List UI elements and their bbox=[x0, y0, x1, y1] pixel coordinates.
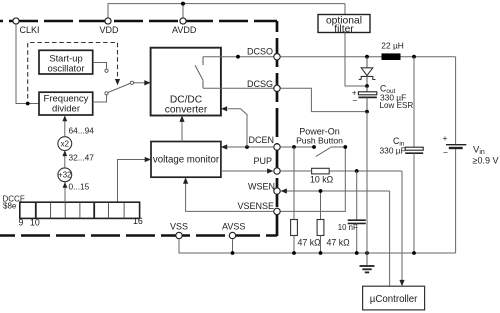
node DCEN branch bbox=[245, 145, 249, 149]
wire Cout bottom to ground rail bbox=[366, 112, 368, 253]
wire DCSG internal bbox=[203, 87, 277, 89]
microcontroller bbox=[363, 286, 425, 310]
node Cin top bbox=[412, 55, 416, 59]
svg-text:converter: converter bbox=[165, 104, 208, 115]
block: frequency divider bbox=[39, 92, 93, 115]
svg-text:DCSG: DCSG bbox=[247, 79, 273, 89]
node AVDD riser bbox=[182, 4, 184, 21]
wire frequency divider output bbox=[93, 95, 107, 102]
inductor 22uH bbox=[381, 40, 404, 59]
node on DCSO bbox=[236, 55, 240, 59]
wire PUP external bbox=[281, 170, 312, 172]
wire DCEN external bbox=[281, 146, 314, 148]
svg-text:oscillator: oscillator bbox=[48, 62, 85, 73]
svg-text:WSEN: WSEN bbox=[248, 182, 275, 192]
svg-text:Low ESR: Low ESR bbox=[380, 101, 414, 110]
svg-text:16: 16 bbox=[133, 216, 143, 226]
wire multiplier to frequency divider bbox=[64, 116, 66, 137]
terminal DCSO bbox=[247, 46, 280, 60]
resistor 47k #2 bbox=[317, 189, 350, 255]
terminal WSEN bbox=[248, 182, 280, 195]
wire CLKI to frequency divider bbox=[16, 24, 39, 103]
chip boundary top edge bbox=[0, 20, 277, 23]
svg-text:9: 9 bbox=[19, 217, 24, 227]
svg-text:DCEN: DCEN bbox=[248, 135, 274, 145]
node DCSO rail to diode D1 bbox=[365, 55, 369, 59]
pushbutton right side wire bbox=[331, 146, 346, 148]
svg-text:voltage monitor: voltage monitor bbox=[153, 154, 220, 165]
wire VSS to ground rail bbox=[179, 239, 456, 253]
svg-text:AVSS: AVSS bbox=[222, 221, 245, 231]
wire PUP internal with arrow bbox=[221, 170, 270, 172]
dashed control outline around oscillator blocks bbox=[28, 43, 118, 99]
terminal VDD bbox=[100, 18, 120, 35]
pushbutton left contact bbox=[312, 145, 316, 149]
resistor 47k #1 bbox=[291, 147, 322, 255]
svg-text:µController: µController bbox=[370, 294, 418, 305]
terminal VSENSE bbox=[237, 201, 280, 214]
node DCEN to resistor R1 bbox=[292, 145, 296, 149]
wire PUP down to microcontroller with arrow bbox=[401, 171, 403, 282]
wire DCEN internal with arrow bbox=[224, 146, 273, 148]
svg-text:32...47: 32...47 bbox=[69, 152, 95, 162]
node AVSS on ground rail bbox=[231, 251, 235, 255]
svg-text:22 µH: 22 µH bbox=[381, 40, 404, 50]
block: voltage monitor bbox=[151, 142, 221, 178]
wire DCSG external bbox=[281, 88, 365, 111]
battery Vin bbox=[443, 57, 499, 253]
svg-text:filter: filter bbox=[334, 24, 354, 35]
wire register to adder bbox=[64, 182, 66, 203]
svg-text:x2: x2 bbox=[61, 140, 69, 149]
diode D1 Schottky bbox=[359, 57, 376, 86]
svg-text:+32: +32 bbox=[58, 171, 71, 180]
node pushbutton right contact bbox=[343, 145, 347, 149]
svg-text:divider: divider bbox=[52, 104, 80, 115]
terminal AVSS bbox=[222, 221, 245, 238]
terminal DCSG bbox=[247, 79, 280, 92]
svg-text:10 kΩ: 10 kΩ bbox=[310, 175, 334, 185]
svg-text:47 kΩ: 47 kΩ bbox=[298, 238, 322, 248]
wire register tap to voltage monitor bbox=[118, 160, 148, 203]
ground symbol bbox=[360, 251, 375, 272]
register DCCF $8e bbox=[3, 195, 143, 228]
svg-text:DCSO: DCSO bbox=[247, 46, 273, 56]
block: start-up oscillator bbox=[39, 50, 93, 74]
wire AVSS drop bbox=[232, 239, 234, 253]
svg-text:CLKI: CLKI bbox=[20, 25, 40, 35]
chip boundary right edge bbox=[276, 21, 279, 236]
node on VDD rail above AVDD bbox=[181, 2, 185, 6]
wire voltage monitor to DC/DC bbox=[181, 119, 183, 142]
terminal AVDD bbox=[172, 18, 197, 35]
top VDD rail bbox=[108, 4, 345, 21]
wire pole to DC/DC with arrow bbox=[134, 82, 146, 84]
block: DC/DC converter bbox=[151, 48, 221, 116]
label Cout bbox=[380, 84, 414, 111]
optional filter bbox=[318, 4, 370, 35]
switch arm clock select bbox=[108, 83, 131, 92]
multiplier x2 bbox=[58, 137, 72, 151]
terminal VSS bbox=[170, 221, 188, 238]
svg-text:≥0.9 V: ≥0.9 V bbox=[473, 155, 499, 165]
wire WSEN external with arrow to terminal bbox=[281, 190, 390, 192]
capacitor 10nF bbox=[338, 171, 366, 255]
contact frequency divider bbox=[105, 92, 108, 95]
terminal CLKI bbox=[13, 18, 40, 35]
wire WSEN down to microcontroller bbox=[389, 191, 391, 286]
svg-text:10 nF: 10 nF bbox=[338, 223, 358, 232]
svg-text:$8e: $8e bbox=[3, 202, 17, 211]
node PUP to capacitor C3 bbox=[355, 169, 359, 173]
capacitor Cin bbox=[380, 57, 424, 255]
svg-text:VSENSE: VSENSE bbox=[237, 201, 274, 211]
wire DCEN control to DC/DC bbox=[228, 109, 247, 147]
svg-text:Push Button: Push Button bbox=[296, 136, 343, 146]
svg-text:64...94: 64...94 bbox=[69, 125, 95, 135]
wire VSENSE internal to voltage monitor bbox=[186, 181, 274, 211]
svg-text:47 kΩ: 47 kΩ bbox=[327, 238, 351, 248]
svg-text:10: 10 bbox=[30, 218, 40, 228]
svg-text:VSS: VSS bbox=[170, 221, 188, 231]
dashed control arrow to switch bbox=[115, 79, 120, 85]
wire adder to multiplier bbox=[64, 151, 66, 168]
svg-text:+: + bbox=[443, 133, 448, 143]
wire optional filter to output node bbox=[345, 33, 365, 87]
wire VSENSE external bbox=[281, 147, 346, 211]
pushbutton arm bbox=[316, 148, 331, 157]
svg-text:−: − bbox=[443, 148, 448, 158]
terminal PUP bbox=[253, 156, 280, 174]
svg-text:PUP: PUP bbox=[253, 156, 272, 166]
Power-On Push Button bbox=[296, 126, 343, 145]
svg-text:VDD: VDD bbox=[100, 25, 120, 35]
svg-text:0...15: 0...15 bbox=[69, 181, 90, 191]
svg-text:−: − bbox=[352, 96, 357, 106]
node Cout bottom / DCSG join bbox=[365, 110, 369, 114]
svg-text:AVDD: AVDD bbox=[172, 25, 197, 35]
svg-text:330 µF: 330 µF bbox=[380, 145, 406, 155]
terminal DCEN bbox=[248, 135, 280, 150]
internal switch of converter bbox=[195, 57, 203, 89]
contact pole bbox=[130, 81, 133, 84]
wire DCSO internal bbox=[203, 56, 277, 58]
node output bbox=[365, 84, 369, 88]
capacitor Cout electrolytic bbox=[352, 86, 377, 112]
wire DCSO external to battery rail bbox=[281, 56, 456, 58]
chip boundary bottom edge bbox=[0, 234, 277, 237]
node on CLKI wire bbox=[26, 102, 30, 106]
adder +32 bbox=[58, 168, 72, 182]
wire start-up oscillator output bbox=[93, 63, 107, 70]
resistor 10k bbox=[310, 168, 334, 184]
contact start-up bbox=[105, 69, 108, 72]
